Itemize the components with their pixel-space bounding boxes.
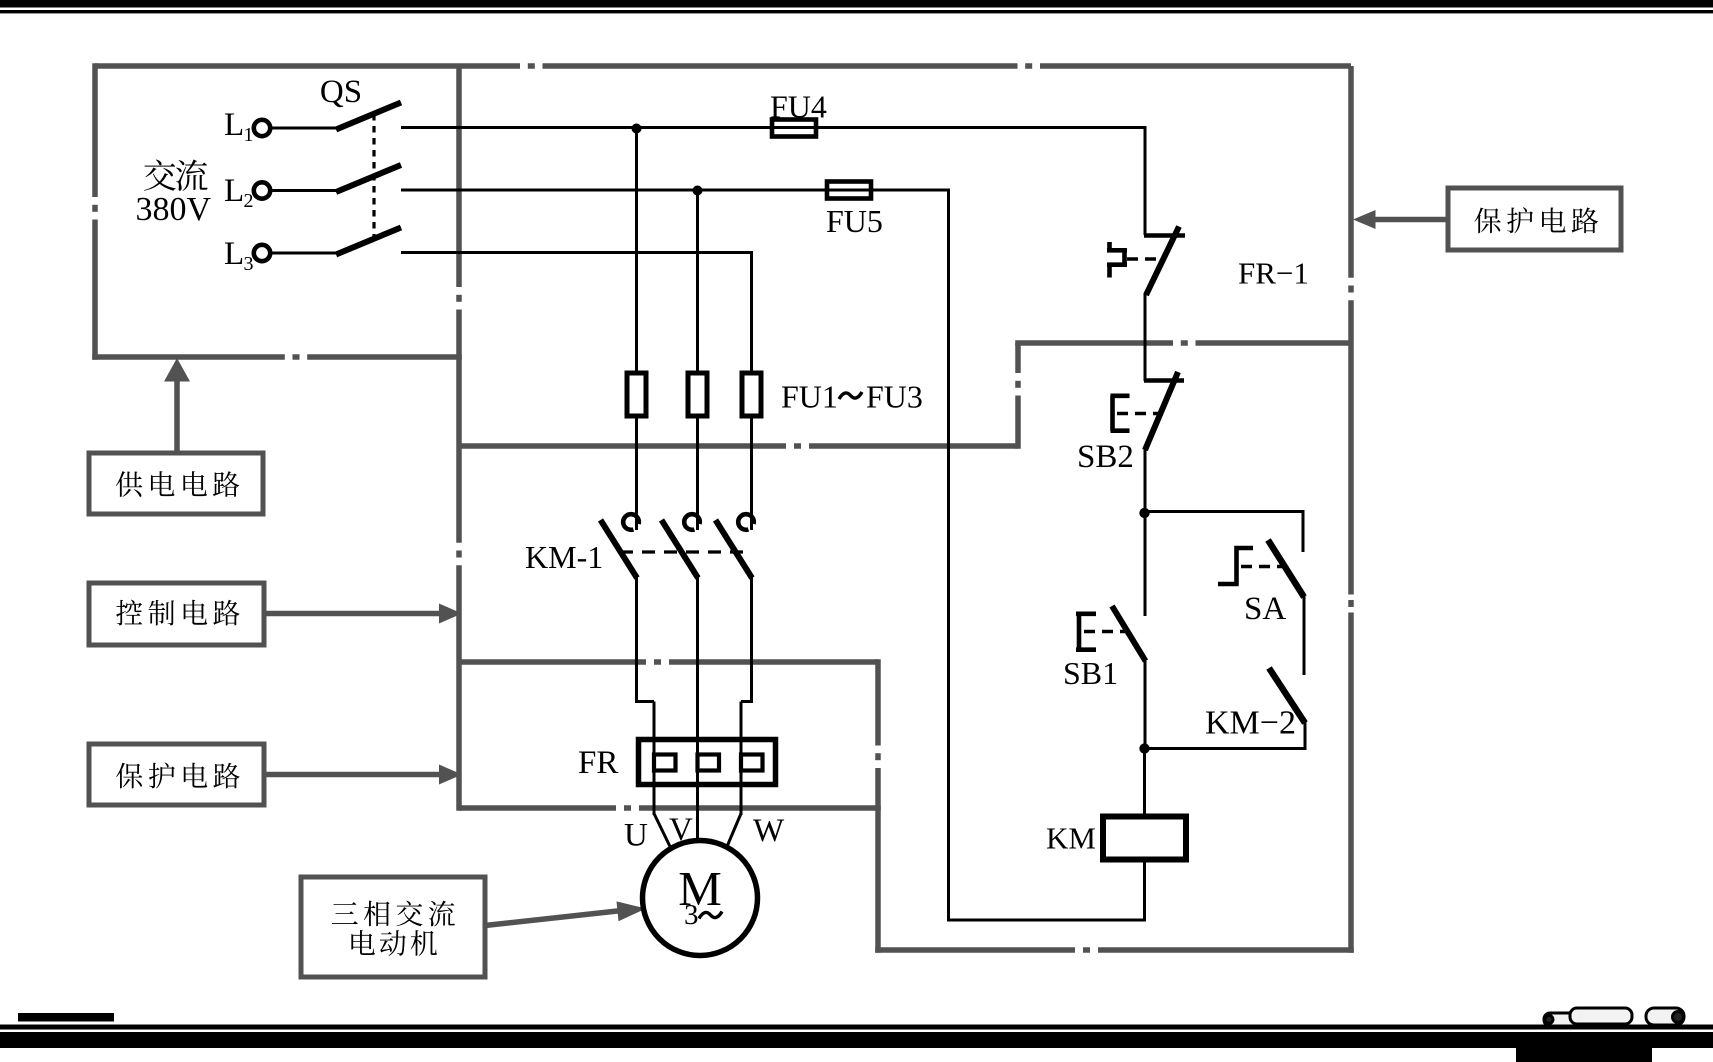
terminal L1 — [254, 120, 270, 136]
label box 三相交流电动机 (three-phase AC motor) — [301, 877, 485, 977]
label V — [669, 812, 693, 848]
label FR-1 — [1238, 256, 1309, 291]
fuse FU2 — [688, 373, 707, 416]
svg-text:SB2: SB2 — [1077, 439, 1134, 475]
svg-text:L: L — [224, 236, 244, 272]
fuse FU4 — [772, 120, 816, 137]
wire fuse outputs to KM-1 — [637, 416, 752, 530]
svg-text:FU4: FU4 — [770, 89, 827, 125]
contact KM-2 (NO self-lock) — [1269, 668, 1305, 723]
pushbutton SB1 (NO start) — [1076, 513, 1146, 661]
fuse FU1 — [627, 373, 646, 416]
contactor KM-1 pole 3 — [716, 514, 754, 703]
svg-text:KM-1: KM-1 — [525, 539, 603, 575]
motor M 3~ — [643, 841, 758, 956]
selector switch SA — [1218, 540, 1304, 597]
wire L3 QS to drop — [401, 253, 753, 375]
protection region bottom boundary y=808 — [459, 805, 881, 811]
wire L1 QS to FU4 and control tap — [401, 126, 1145, 129]
label SB1 — [1063, 655, 1118, 691]
label FU5 — [826, 203, 883, 239]
terminal L2 — [254, 182, 270, 198]
QS linkage dashed — [372, 114, 375, 240]
arrow from 供电电路 to supply region — [164, 358, 190, 453]
svg-text:1: 1 — [244, 124, 254, 146]
wire phase B drop — [696, 190, 699, 374]
svg-text:U: U — [624, 818, 648, 854]
label KM — [1046, 821, 1096, 856]
wire branch to SA — [1145, 512, 1305, 553]
label L2 — [224, 173, 254, 212]
label box 供电电路 (power supply circuit) — [89, 453, 263, 514]
svg-text:2: 2 — [244, 190, 254, 212]
node L1/控制 junction — [632, 124, 642, 134]
svg-text:L: L — [224, 173, 244, 209]
KM-1 linkage dashed — [620, 550, 750, 553]
terminal L3 — [254, 245, 270, 261]
label FR — [578, 745, 618, 781]
fuse FU5 — [827, 182, 871, 199]
svg-text:FU3: FU3 — [866, 379, 923, 415]
main/control divider vertical — [456, 66, 462, 811]
wire phase A jog to FR — [637, 702, 655, 816]
wire SB1 to node — [1144, 659, 1147, 750]
label box 保护电路 left (protection circuit) — [89, 744, 264, 805]
wire L2 to QS — [271, 189, 337, 192]
svg-text:3: 3 — [244, 253, 254, 275]
control region top boundary y=343 — [1015, 340, 1351, 346]
label SB2 — [1077, 439, 1134, 475]
wire SA to KM-2 — [1303, 595, 1306, 675]
contactor KM-1 pole 1 — [601, 514, 639, 703]
svg-text:FU1: FU1 — [781, 379, 838, 415]
label U — [624, 818, 648, 854]
node self-lock top junction — [1139, 508, 1149, 518]
arrow from motor label to motor — [485, 901, 646, 925]
label FU1~FU3 — [781, 379, 923, 415]
svg-text:3: 3 — [684, 899, 699, 931]
contactor coil KM — [1103, 817, 1186, 860]
svg-text:FR−1: FR−1 — [1238, 256, 1309, 291]
wire phase A drop — [635, 128, 638, 374]
fuse FU3 — [742, 373, 761, 416]
supply region left boundary — [92, 63, 98, 360]
wire phase B through FR — [696, 701, 699, 841]
label KM-1 — [525, 539, 603, 575]
svg-text:QS: QS — [320, 74, 362, 110]
supply region bottom boundary — [92, 354, 462, 360]
thermal relay FR heater box — [639, 740, 776, 785]
relay contact FR-1 (NC) — [1107, 227, 1185, 296]
label L3 — [224, 236, 254, 275]
label L1 — [224, 107, 254, 146]
pushbutton SB2 (NC stop) — [1111, 372, 1185, 450]
label box 保护电路 right (protection circuit) — [1448, 188, 1621, 250]
wire node to KM coil — [1143, 749, 1146, 818]
svg-text:FR: FR — [578, 745, 618, 781]
wire phase C jog to FR — [741, 702, 753, 816]
label KM-2 — [1205, 705, 1296, 742]
svg-text:KM−2: KM−2 — [1205, 705, 1296, 742]
label SA — [1244, 591, 1286, 627]
wire SB2 to node — [1144, 448, 1147, 514]
svg-text:380V: 380V — [136, 191, 212, 228]
switch QS pole 2 — [336, 165, 401, 192]
wire W lead — [727, 814, 741, 847]
wire L1 to QS — [271, 127, 337, 130]
wire KM coil to bottom return — [947, 860, 1146, 922]
wire KM-2 to node — [1144, 721, 1307, 750]
node L2 junction — [693, 186, 703, 196]
switch QS pole 3 — [336, 228, 401, 255]
svg-text:SB1: SB1 — [1063, 655, 1118, 691]
protection region top boundary y=662 — [459, 659, 878, 665]
node self-lock bottom junction — [1139, 743, 1149, 753]
svg-text:SA: SA — [1244, 591, 1286, 627]
arrow from 保护电路 right to right boundary — [1353, 210, 1448, 229]
control region bottom boundary y=950 — [875, 947, 1354, 953]
label W — [753, 813, 785, 849]
svg-text:FU5: FU5 — [826, 203, 883, 239]
supply region top boundary wire — [95, 63, 1351, 69]
label box 控制电路 (control circuit) — [89, 583, 264, 645]
svg-text:L: L — [224, 107, 244, 143]
contactor KM-1 pole 2 — [662, 514, 700, 703]
switch QS pole 1 — [336, 103, 401, 130]
label 交流380V — [136, 160, 212, 228]
wire FR-1 to SB2 — [1144, 293, 1147, 381]
main circuit bottom boundary y=446 — [459, 443, 1018, 449]
wire L3 to QS — [271, 252, 337, 255]
label FU4 — [770, 89, 827, 125]
arrow from 保护电路 left to divider — [264, 765, 462, 785]
protection region right vertical x=878 — [875, 659, 881, 953]
wire control feed from FU4 down — [1144, 126, 1147, 235]
label QS — [320, 74, 362, 110]
arrow from 控制电路 to divider — [264, 604, 462, 624]
svg-text:KM: KM — [1046, 821, 1096, 856]
control region corner vertical x=1018 — [1015, 343, 1021, 449]
wire U lead — [654, 814, 670, 847]
wire L2 QS to FU5 to control loop — [401, 190, 950, 922]
right region boundary vertical — [1348, 66, 1354, 953]
svg-text:W: W — [753, 813, 785, 849]
